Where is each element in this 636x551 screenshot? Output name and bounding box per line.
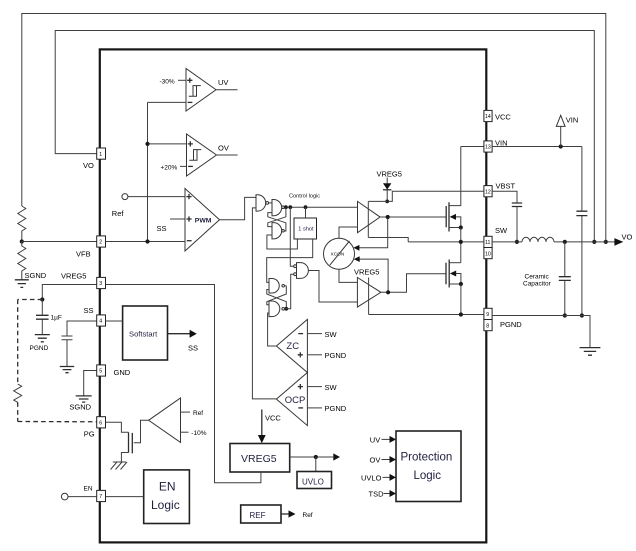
wire: UV output	[216, 89, 238, 91]
gate G5 NAND (latch2)	[269, 301, 280, 317]
wire: DR2 supply rail to PGND	[368, 278, 370, 315]
svg-text:12: 12	[485, 189, 491, 195]
pin 11 SW	[484, 236, 492, 247]
arrowhead VO output	[614, 238, 623, 246]
svg-text:SW: SW	[325, 330, 338, 339]
node: PGND junction at Q2	[459, 312, 463, 316]
svg-text:-30%: -30%	[160, 78, 175, 85]
wire: -30% input	[178, 79, 186, 81]
block REF	[241, 505, 281, 523]
node: DR1 output junction	[386, 215, 390, 219]
pin 2 VFB	[97, 236, 106, 247]
arrowhead SS out	[190, 330, 197, 338]
pin 6 PG	[97, 417, 106, 428]
svg-text:SGND: SGND	[69, 402, 91, 411]
block Protection Logic	[396, 431, 461, 502]
wire: latch1 out to AND upper input	[290, 207, 293, 266]
wire: dashed pull-up left segment lower	[17, 402, 19, 421]
svg-text:PWM: PWM	[195, 217, 212, 224]
wire: VCC into VREG5 block	[261, 410, 263, 437]
wire: VFB to PWM-	[106, 241, 186, 243]
wire: G1 to G2	[269, 202, 272, 204]
pin 9 PGND	[484, 308, 492, 319]
svg-text:XCON: XCON	[331, 252, 345, 258]
svg-text:VO: VO	[83, 161, 94, 170]
pin 7 EN	[97, 490, 106, 501]
comparator ZC	[276, 319, 307, 372]
svg-text:14: 14	[485, 114, 491, 120]
wire: UVLO input	[383, 476, 391, 478]
wire: PGND rail inside	[369, 314, 484, 316]
wire: XCON bottom to DR2 upper input	[339, 269, 357, 282]
node: ceramic cap junction	[563, 240, 567, 244]
hysteresis icon (OV)	[189, 150, 201, 161]
ground SGND (divider)	[15, 280, 29, 288]
wire: dashed pull-up left segment upper	[17, 300, 19, 385]
label - (OCP)	[298, 407, 303, 409]
wire: VIN external	[492, 146, 582, 148]
wire: Softstart output SS	[168, 333, 191, 335]
svg-text:VIN: VIN	[566, 116, 579, 125]
arrowhead into XCON lower	[354, 256, 360, 262]
svg-text:2: 2	[99, 240, 102, 246]
wire: Q2 source stub	[449, 283, 461, 285]
wire: outer feedback loop VO to divider (top/left/right)	[22, 14, 606, 242]
capacitor C2 (soft-start)	[62, 336, 73, 366]
svg-text:Ceramic: Ceramic	[525, 274, 550, 281]
comparator OV	[187, 134, 217, 176]
svg-text:6: 6	[99, 421, 102, 427]
gate G4 NAND (latch2)	[269, 279, 279, 294]
block XCON	[324, 238, 355, 269]
svg-text:Logic: Logic	[151, 498, 180, 512]
block UVLO	[297, 472, 332, 489]
svg-text:11: 11	[485, 240, 490, 246]
wire: VREG5 block to pin 3 riser	[106, 285, 261, 483]
label + (OCP)	[298, 384, 303, 389]
svg-text:1: 1	[99, 152, 102, 158]
svg-text:8: 8	[486, 323, 489, 329]
wire: ZC output to latch2	[268, 313, 277, 346]
diode D1	[386, 178, 388, 202]
wire: PGND external	[492, 316, 590, 348]
comparator PWM	[185, 189, 220, 252]
capacitor C4 (input)	[581, 147, 583, 316]
wire: SS to PWM	[170, 218, 185, 220]
svg-text:Ref: Ref	[112, 209, 125, 218]
svg-text:SS: SS	[157, 224, 167, 233]
wire: pin 4 to Softstart	[106, 320, 123, 322]
wire: ZC SW input	[307, 333, 322, 335]
svg-text:SW: SW	[325, 383, 338, 392]
wire: Q1 source down through SW to Q2 drain	[460, 228, 462, 263]
wire: PG pin to Q3 drain	[106, 422, 129, 432]
capacitor C5 (ceramic output)	[564, 242, 566, 316]
gate U3 AND (inverted inputs)	[297, 263, 309, 279]
svg-text:VREG5: VREG5	[241, 453, 277, 465]
wire: XCON top to DR1 lower input	[339, 227, 358, 238]
svg-text:Ref: Ref	[193, 410, 203, 417]
svg-text:7: 7	[99, 494, 102, 500]
capacitor C1 1uF	[41, 300, 43, 335]
wire: VFB to pin 2	[22, 241, 97, 243]
ground SGND (pin 5)	[76, 396, 92, 402]
wire: latch output to driver DR1	[284, 206, 357, 208]
wire: OV input	[382, 459, 391, 461]
svg-text:Protection: Protection	[401, 452, 453, 464]
wire: DR1 lower rail to SW	[368, 238, 408, 242]
node: G5 output junction	[284, 307, 288, 311]
wire: PG comparator output to Q3 gate	[134, 420, 149, 442]
svg-text:EN: EN	[159, 479, 176, 493]
arrowhead into XCON upper	[353, 245, 359, 251]
wire: VBST external to bootstrap cap	[492, 191, 517, 203]
IC outline U100	[100, 49, 487, 542]
label + PWM	[186, 216, 191, 221]
node: Q1 source junction	[459, 225, 463, 229]
wire: AND output to driver DR2	[308, 271, 357, 303]
supply symbol VIN	[560, 126, 562, 146]
pin 4 SS	[97, 315, 106, 326]
wire: 1-shot second output to G4	[267, 239, 313, 282]
svg-text:UVLO: UVLO	[361, 473, 382, 482]
wire: GND pin 5 to signal ground	[84, 371, 97, 396]
ground PGND (under C1)	[35, 335, 50, 342]
node: VREG5 out junction	[314, 455, 318, 459]
wire: DR2 output to Q2 gate	[381, 274, 446, 293]
label - (UV)	[188, 101, 193, 103]
svg-text:VREG5: VREG5	[377, 170, 402, 179]
wire: DR2 output feedback into XCON	[358, 259, 388, 292]
node: OV+ junction	[145, 142, 149, 146]
svg-text:Capacitor: Capacitor	[523, 281, 552, 288]
arrowhead VCC	[258, 435, 266, 443]
wire: VFB sense vertical UV-/OV+	[148, 102, 187, 241]
svg-text:UV: UV	[218, 78, 228, 87]
svg-text:VCC: VCC	[265, 413, 281, 422]
node: Q2 source junction	[459, 282, 463, 286]
svg-text:1µF: 1µF	[51, 315, 62, 322]
svg-text:SS: SS	[188, 344, 198, 353]
label + (PWM top)	[186, 194, 191, 199]
svg-text:PG: PG	[84, 430, 95, 439]
driver DR2 (low side)	[357, 278, 381, 308]
node: diode to driver rail junction	[385, 200, 389, 204]
wire: UV- from VFB sense	[148, 101, 187, 103]
svg-text:OV: OV	[370, 456, 381, 465]
svg-text:VBST: VBST	[496, 182, 516, 191]
wire: OCP output riser to G1 input	[252, 208, 276, 399]
svg-text:PGND: PGND	[325, 351, 347, 360]
wire: EN terminal to pin 7	[68, 496, 97, 498]
block VREG5 regulator	[230, 444, 290, 473]
gate G1 NAND	[256, 195, 266, 211]
svg-text:EN: EN	[84, 486, 93, 493]
pin 10 SW	[484, 248, 492, 259]
pin 5 GND	[97, 365, 106, 376]
svg-text:Logic: Logic	[414, 470, 442, 482]
svg-text:TSD: TSD	[369, 490, 385, 499]
terminal EN (circle)	[61, 493, 68, 500]
node: VREG5 external junction	[40, 297, 44, 301]
svg-text:Ref: Ref	[303, 512, 313, 519]
svg-text:3: 3	[99, 281, 102, 287]
pin 1 VO	[97, 148, 106, 159]
wire: pin 7 to EN Logic	[106, 496, 144, 498]
wire: OV output	[217, 154, 238, 156]
svg-text:5: 5	[99, 369, 102, 375]
capacitor C3 (bootstrap)	[512, 203, 522, 207]
wire: Q2 source to PGND rail	[460, 284, 462, 315]
wire: VIN pin to Q1 drain	[461, 146, 484, 148]
pin 8 PGND	[484, 320, 492, 331]
ground chassis (Q3)	[111, 462, 128, 470]
wire: SW rail inside	[408, 241, 484, 243]
wire: VREG5 output	[290, 456, 334, 458]
wire: pin3 VREG5 to external cap node	[42, 285, 96, 300]
node: C5 to PGND junction	[563, 313, 567, 317]
wire: SW external to inductor	[492, 241, 522, 243]
svg-text:PGND: PGND	[30, 345, 49, 352]
svg-text:VREG5: VREG5	[354, 267, 379, 276]
node: divider tap junction	[20, 239, 24, 243]
svg-text:PGND: PGND	[325, 404, 347, 413]
node: DR2 output junction	[386, 290, 390, 294]
svg-text:13: 13	[485, 145, 491, 151]
svg-text:OCP: OCP	[285, 395, 306, 406]
svg-text:VFB: VFB	[76, 250, 91, 259]
svg-text:REF: REF	[250, 511, 266, 520]
gate G3 NAND (latch)	[272, 223, 282, 239]
transistor Q1 (high-side NMOS)	[445, 206, 447, 227]
wire: Q2 drain stub	[449, 262, 461, 264]
wire: REF output	[281, 513, 289, 515]
resistor R1 (upper feedback divider)	[18, 206, 26, 242]
wire: dashed pull-up top segment	[18, 299, 43, 301]
wire: TSD input	[384, 493, 391, 495]
node: VIN symbol junction	[559, 144, 563, 148]
pin 14 VCC	[484, 110, 492, 121]
wire: to UVLO	[315, 457, 317, 472]
wire: Q3 source to chassis ground	[121, 453, 128, 463]
gate G2 NAND (latch)	[272, 200, 282, 216]
node: C4 to PGND junction	[580, 313, 584, 317]
wire: DR1 supply rail and VBST connection	[368, 191, 484, 237]
transistor Q2 (low-side NMOS)	[445, 263, 447, 285]
Q1 body arrow	[455, 217, 461, 228]
wire: Q1 drain to VIN	[449, 147, 461, 206]
wire: Ref to PWM+	[128, 196, 185, 198]
block EN Logic	[144, 470, 190, 524]
pin 13 VIN	[484, 141, 492, 152]
ground (output return)	[580, 348, 601, 356]
label - (PWM)	[187, 240, 192, 242]
pin 3 VREG5	[97, 277, 106, 288]
wire: latch2 cross-couple X	[267, 286, 287, 309]
wire: OCP PGND input	[307, 407, 322, 409]
ground (under C2)	[60, 367, 74, 373]
driver DR1 (high side)	[358, 201, 381, 232]
node: VFB sense junction	[145, 239, 149, 243]
pin 12 VBST	[484, 186, 492, 197]
node: SW junction	[459, 240, 463, 244]
arrowhead Ref out	[289, 510, 296, 517]
node: bootstrap to SW junction	[515, 240, 519, 244]
block Softstart	[123, 306, 168, 360]
wire: PG -10% input	[181, 431, 189, 433]
svg-text:SW: SW	[495, 226, 508, 235]
svg-text:VCC: VCC	[495, 112, 511, 121]
svg-text:SGND: SGND	[25, 271, 47, 280]
wire: PWM output to gate G1	[220, 197, 257, 219]
wire: DR1 output to Q1 gate	[380, 216, 446, 218]
svg-text:GND: GND	[114, 368, 131, 377]
svg-text:10: 10	[485, 251, 491, 257]
resistor R2 (lower feedback divider)	[18, 242, 26, 280]
svg-text:1 shot: 1 shot	[298, 227, 314, 233]
svg-text:4: 4	[99, 319, 102, 325]
terminal Ref (circle)	[122, 194, 128, 200]
node: latch out dots	[284, 205, 288, 209]
wire: SS pin to soft-start cap	[67, 321, 97, 336]
resistor R3 (PG pull-up)	[14, 384, 22, 402]
svg-text:PGND: PGND	[500, 320, 522, 329]
svg-text:+20%: +20%	[161, 164, 178, 171]
wire: UV input	[382, 438, 391, 440]
label - (OV)	[188, 165, 193, 167]
wire: latch out to 1-shot top	[305, 207, 307, 218]
node: junction second loop on VO line	[592, 240, 596, 244]
wire: G3 lower input from 1-shot	[267, 235, 298, 249]
arrowhead VREG5 out	[333, 453, 340, 460]
wire: ZC PGND input	[307, 354, 322, 356]
svg-text:9: 9	[486, 312, 489, 318]
comparator PG (power good)	[149, 398, 181, 442]
comparator OCP	[276, 373, 307, 426]
svg-text:ZC: ZC	[286, 341, 299, 352]
hysteresis icon (UV)	[189, 86, 201, 97]
wire: dashed pull-up bottom segment to PG pin	[18, 421, 97, 423]
inductor L1	[522, 237, 554, 242]
svg-text:VO: VO	[622, 233, 633, 242]
wire: DR1 output feedback into XCON	[358, 217, 388, 248]
label + (ZC)	[298, 352, 303, 357]
comparator UV	[186, 69, 216, 112]
Q2 body arrow	[455, 274, 461, 285]
wire: latch cross-couple X	[268, 207, 286, 231]
wire: second loop VO pin1 sense	[55, 31, 594, 242]
svg-text:UVLO: UVLO	[302, 477, 324, 486]
label - (ZC)	[298, 333, 303, 335]
svg-text:OV: OV	[218, 144, 229, 153]
wire: G5 output to AND lower input	[285, 274, 294, 309]
wire: PG Ref input	[181, 411, 191, 413]
label + (OV)	[188, 141, 193, 146]
svg-text:Softstart: Softstart	[129, 329, 158, 338]
wire: Q1 source to SW	[449, 227, 461, 229]
wire: VO output line	[554, 241, 615, 243]
svg-text:UV: UV	[370, 435, 380, 444]
svg-text:SS: SS	[84, 306, 94, 315]
wire: OCP SW input	[307, 386, 322, 388]
svg-text:-10%: -10%	[191, 430, 206, 437]
label + (UV)	[187, 78, 192, 83]
node: junction outer loop on VO line	[604, 240, 608, 244]
block 1-shot	[294, 218, 317, 239]
svg-text:Control logic: Control logic	[289, 194, 320, 200]
transistor Q3 (PG open drain)	[128, 432, 130, 452]
wire: +20% input	[180, 165, 187, 167]
svg-text:VREG5: VREG5	[61, 271, 86, 280]
